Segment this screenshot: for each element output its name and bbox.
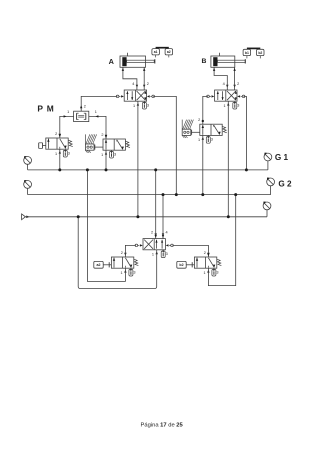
wire cylinder B right port to V2 port 2 xyxy=(234,67,236,90)
source circle G2 right xyxy=(267,178,275,195)
wire roller left port 2 to shuttle right inlet xyxy=(89,116,106,139)
svg-text:4: 4 xyxy=(132,82,134,86)
svg-text:3: 3 xyxy=(237,103,239,107)
node G1 loop xyxy=(86,168,89,171)
svg-text:2: 2 xyxy=(55,132,57,136)
node V1 pilot on G2 xyxy=(175,193,178,196)
svg-text:P: P xyxy=(37,104,43,114)
node roller right on G2 xyxy=(201,193,204,196)
svg-text:2: 2 xyxy=(204,251,206,255)
valve V3 4/2 impulse cascade memory xyxy=(143,231,168,258)
bus line G2 xyxy=(28,194,271,196)
valve 3/2 roller limit right (pressed) xyxy=(198,118,227,143)
svg-text:b2: b2 xyxy=(179,263,183,267)
tag actuator b2 xyxy=(177,261,195,268)
wire bus G1 to V3 port 2 xyxy=(155,170,157,239)
source circle left 2 xyxy=(24,180,32,195)
svg-text:1: 1 xyxy=(133,104,135,108)
svg-text:b1: b1 xyxy=(245,51,249,55)
valve V1 4/2 impulse under cylinder A xyxy=(124,82,149,109)
node V2 port1 on supply xyxy=(227,215,230,218)
svg-text:1: 1 xyxy=(198,138,200,142)
node G2 loop xyxy=(234,193,237,196)
valve 3/2 roller limit left (pressed) xyxy=(101,133,130,158)
svg-text:3: 3 xyxy=(216,270,218,274)
wire valve b2 port 2 to V3 right pilot xyxy=(173,245,209,257)
node P port1 on G1 xyxy=(58,168,61,171)
node V1 port1 on supply xyxy=(136,215,139,218)
source circle right 3 xyxy=(263,202,271,217)
shuttle valve OR xyxy=(74,111,89,121)
svg-text:G 1: G 1 xyxy=(275,153,289,162)
cylinder B xyxy=(211,53,245,68)
pilot left of V1 xyxy=(116,95,119,98)
svg-text:A: A xyxy=(109,57,115,66)
node V3 port4 on G2 xyxy=(162,193,165,196)
svg-text:G 2: G 2 xyxy=(278,179,292,188)
svg-text:1: 1 xyxy=(67,110,69,114)
node V3 port2 on G1 xyxy=(154,168,157,171)
svg-text:M: M xyxy=(47,104,54,114)
svg-text:Página 17 de 25: Página 17 de 25 xyxy=(141,423,184,429)
distance rule b1 b2 xyxy=(243,48,264,58)
push button actuator of P xyxy=(39,143,46,149)
wire shuttle output to V1 left pilot xyxy=(81,96,117,111)
wire V2 port 1 down to supply bus xyxy=(227,101,229,217)
svg-text:3: 3 xyxy=(147,103,149,107)
svg-text:3: 3 xyxy=(166,252,168,256)
valve V2 4/2 impulse under cylinder B xyxy=(215,82,240,109)
svg-text:3: 3 xyxy=(133,270,135,274)
node V2 pilot on G1 xyxy=(245,168,248,171)
wire supply bus loop to V3 port 1 xyxy=(78,217,157,289)
svg-text:2: 2 xyxy=(121,251,123,255)
air supply triangle xyxy=(22,214,30,220)
wire cylinder A right port to V1 port 2 xyxy=(143,67,145,90)
svg-text:a2: a2 xyxy=(167,50,171,54)
svg-text:3: 3 xyxy=(114,152,116,156)
node roller left on G1 xyxy=(105,168,108,171)
svg-text:3: 3 xyxy=(211,138,213,142)
wire roller left port 1 to bus G1 xyxy=(105,150,107,170)
roller actuator left (with cam) xyxy=(85,134,102,152)
svg-text:2: 2 xyxy=(84,104,86,108)
svg-text:1: 1 xyxy=(204,271,206,275)
svg-text:2: 2 xyxy=(151,231,153,235)
bus line G1 xyxy=(28,169,268,171)
distance rule a1 a2 xyxy=(152,48,173,58)
wire V1 right pilot to bus G2 xyxy=(153,96,176,194)
svg-text:4: 4 xyxy=(223,82,225,86)
wire button P port 1 to bus G1 xyxy=(59,149,61,170)
pilot right of V2 xyxy=(242,95,245,98)
pilot right of V1 xyxy=(152,95,155,98)
svg-text:1: 1 xyxy=(101,153,103,157)
wire button P port 2 to shuttle left inlet xyxy=(60,116,74,138)
valve 3/2 limit a2 bottom left xyxy=(111,251,138,276)
svg-text:1: 1 xyxy=(121,271,123,275)
wire bus G1 loop to valve a2 port 1 xyxy=(87,170,125,282)
source circle left 1 xyxy=(24,156,32,170)
bus line main supply xyxy=(25,216,267,218)
roller actuator right (with cam) xyxy=(182,120,199,138)
wire bus G2 loop to valve b2 port 1 xyxy=(208,195,235,286)
svg-text:2: 2 xyxy=(147,82,149,86)
source circle G1 right xyxy=(264,153,272,170)
valve 3/2 start button P xyxy=(46,132,73,157)
cylinder A xyxy=(120,53,155,68)
tag actuator a2 xyxy=(94,261,112,268)
svg-text:1: 1 xyxy=(223,104,225,108)
svg-text:1: 1 xyxy=(55,152,57,156)
wire valve a2 port 2 to V3 left pilot xyxy=(125,245,135,257)
svg-text:a2: a2 xyxy=(97,263,101,267)
svg-text:3: 3 xyxy=(68,151,70,155)
wire roller right port 1 to bus G2 xyxy=(202,135,204,194)
wire V1 port 1 down to supply bus xyxy=(137,101,139,217)
svg-text:a1: a1 xyxy=(154,50,158,54)
svg-text:1: 1 xyxy=(152,252,154,256)
pilot left of V3 xyxy=(135,244,138,247)
svg-text:b2: b2 xyxy=(258,51,262,55)
wire cylinder B left port to V2 port 4 xyxy=(214,67,227,90)
pilot right of V3 xyxy=(171,244,174,247)
svg-text:2: 2 xyxy=(101,133,103,137)
wire V2 right pilot to bus G1 xyxy=(244,96,247,169)
svg-text:2: 2 xyxy=(237,82,239,86)
svg-text:2: 2 xyxy=(198,118,200,122)
wire roller right port 2 to V2 left pilot xyxy=(203,96,208,124)
wire bus G2 to V3 port 4 xyxy=(162,195,164,239)
svg-text:B: B xyxy=(202,58,207,65)
svg-text:4: 4 xyxy=(166,231,168,235)
node supply loop xyxy=(77,215,80,218)
svg-text:1: 1 xyxy=(95,110,97,114)
pilot left of V2 xyxy=(207,95,210,98)
valve 3/2 limit b2 bottom right xyxy=(194,251,221,276)
wire cylinder A left port to V1 port 4 xyxy=(123,67,137,90)
